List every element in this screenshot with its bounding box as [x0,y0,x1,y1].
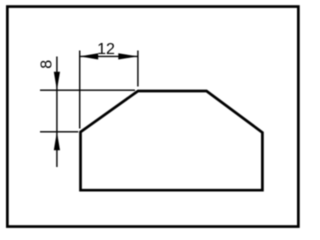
dimension 8: bottom extension line [40,131,78,133]
svg-text:8: 8 [38,60,55,69]
dimension 12: left extension line [79,51,81,129]
dimension 8: dimension line [56,57,58,168]
svg-text:12: 12 [97,41,115,58]
dimension 8: top extension line [40,89,135,91]
part outline polygon [81,91,263,190]
dimension 12: dimension line [80,55,138,57]
dimension 12: right extension line [137,51,139,87]
dimension 8: lower arrowhead (points up) [54,132,60,151]
dimension 12: right arrowhead [118,53,138,59]
dimension 12: left arrowhead [80,53,99,59]
dimension 8: upper arrowhead (points down) [54,72,60,91]
